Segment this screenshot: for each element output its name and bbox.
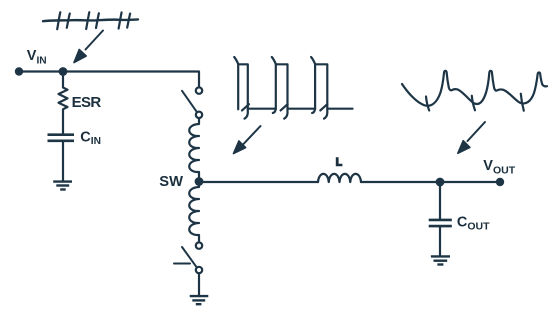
input terminal dot [15, 67, 23, 75]
output terminal dot [496, 178, 504, 186]
parasitic inductance (top coil) [189, 118, 199, 178]
wire VIN to switch [19, 72, 199, 88]
switch S1 (high side) [182, 87, 202, 118]
parasitic inductance (bottom coil) [189, 182, 199, 242]
svg-text:SW: SW [159, 174, 183, 190]
svg-text:VIN: VIN [27, 48, 47, 66]
node VIN junction dot [59, 67, 68, 76]
svg-text:COUT: COUT [457, 215, 490, 233]
ground (output) [431, 256, 450, 264]
node SW junction dot [195, 177, 204, 186]
SW node waveform (square wave with spikes) [234, 57, 352, 119]
capacitor CIN [48, 135, 75, 141]
arrow to VIN node [74, 31, 103, 63]
arrow to SW node [234, 126, 261, 154]
output ripple waveform [402, 71, 547, 111]
wire S2 to ground [198, 273, 200, 296]
svg-text:VOUT: VOUT [483, 158, 515, 177]
ground (switch) [190, 296, 209, 304]
inductor L [318, 174, 361, 182]
node VOUT junction dot [436, 178, 445, 187]
L label [336, 157, 343, 166]
wire L to VOUT [361, 181, 500, 183]
svg-text:CIN: CIN [80, 129, 101, 147]
switch S2 (low side) [174, 242, 202, 273]
arrow to VOUT [458, 122, 485, 153]
ground (input) [53, 182, 72, 190]
resistor ESR [59, 72, 68, 135]
capacitor COUT [439, 182, 441, 220]
input noise waveform [43, 12, 138, 29]
svg-text:ESR: ESR [72, 94, 102, 111]
wire SW to L [199, 181, 318, 183]
wire CIN to ground [62, 141, 64, 181]
